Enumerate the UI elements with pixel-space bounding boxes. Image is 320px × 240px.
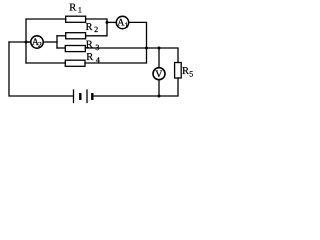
wire A1 right down to R4 row: [85, 22, 147, 63]
wire A2 left: [26, 41, 31, 43]
svg-text:5: 5: [189, 69, 193, 78]
battery cell2 long plate: [86, 90, 88, 103]
svg-text:2: 2: [38, 40, 42, 49]
svg-text:R: R: [69, 3, 76, 14]
wire bottom right from battery to R5: [93, 78, 178, 96]
svg-text:V: V: [155, 69, 163, 80]
svg-text:1: 1: [78, 6, 82, 15]
wire A2 right to bracket: [44, 41, 57, 43]
voltmeter V: [153, 68, 165, 80]
node bus cross: [145, 47, 148, 50]
battery cell1 short plate: [79, 93, 81, 100]
svg-text:1: 1: [125, 20, 129, 29]
svg-text:2: 2: [94, 25, 98, 34]
node A1 tap: [106, 21, 109, 24]
resistor R5: [175, 63, 182, 79]
svg-text:R: R: [86, 52, 93, 63]
wire R3 left stub: [57, 47, 65, 49]
resistor R3: [65, 46, 85, 52]
wire node J1 horizontal: [9, 41, 30, 43]
wire vertical x26 J1 up to R1 row: [26, 19, 66, 63]
wire R2 left stub: [57, 35, 66, 37]
node V top: [158, 47, 161, 50]
wire R3 right bus: [85, 48, 178, 63]
wire bracket vertical: [56, 36, 58, 48]
ammeter A2: [31, 36, 43, 48]
svg-text:3: 3: [95, 43, 99, 52]
svg-text:R: R: [86, 40, 93, 51]
wire left bus: [9, 42, 73, 96]
ammeter A1: [116, 16, 128, 28]
battery cell1 long plate: [73, 90, 75, 103]
svg-text:R: R: [86, 22, 93, 33]
wire A1 tap: [107, 21, 116, 23]
resistor R4: [65, 60, 85, 66]
wire R1 right to corner: [86, 19, 107, 36]
node J1: [25, 41, 28, 44]
svg-text:R: R: [182, 66, 189, 77]
node V bottom: [158, 95, 161, 98]
wire V bottom lead: [158, 80, 160, 96]
battery cell2 short plate: [91, 93, 93, 100]
resistor R1: [66, 16, 86, 22]
resistor R2: [66, 33, 86, 39]
wire V top lead: [158, 48, 160, 67]
wire R4 left: [26, 62, 65, 64]
svg-text:4: 4: [96, 56, 100, 65]
